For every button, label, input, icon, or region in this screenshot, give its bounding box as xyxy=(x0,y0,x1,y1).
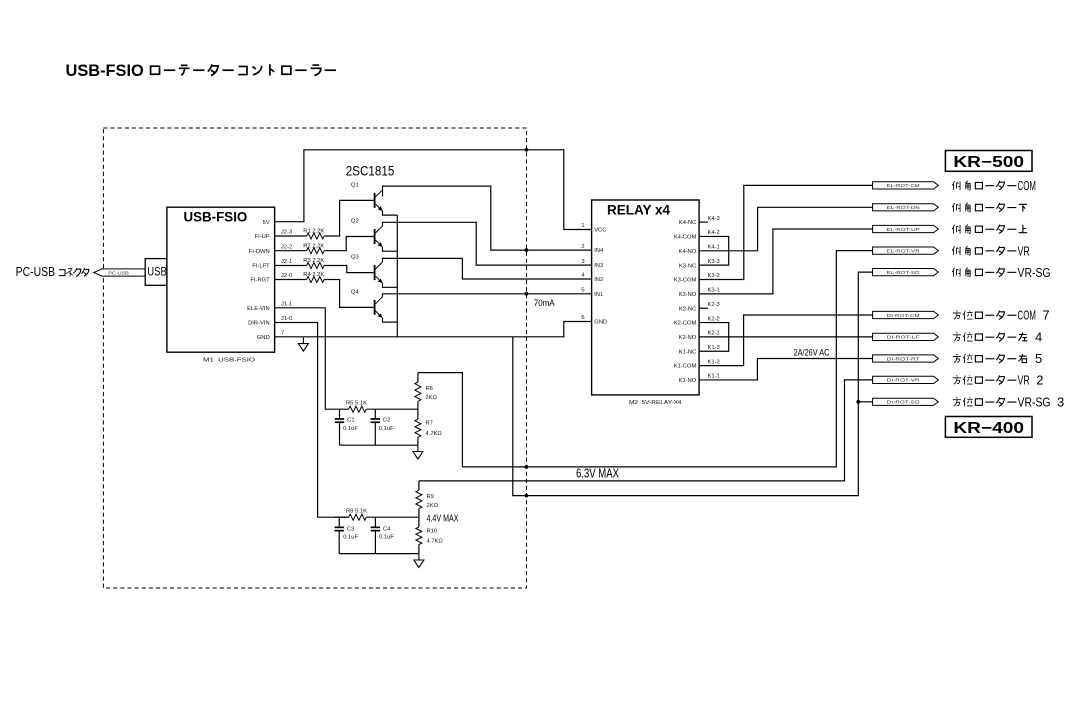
svg-text:K1-1: K1-1 xyxy=(708,374,720,380)
wire C1/C2/R7 bottom rail xyxy=(340,444,418,446)
label azimuth rotator left 4 (Japanese) xyxy=(953,330,1042,345)
label azimuth rotator VR-SG 3 (Japanese) xyxy=(953,395,1064,410)
resistor R8 5.1K xyxy=(335,509,368,521)
net flag EL-ROT-CM xyxy=(873,182,939,189)
svg-text:K2-COM: K2-COM xyxy=(674,321,697,327)
wire DIR-VIN from M1 down to R8 filter node xyxy=(275,323,349,518)
wire K1-COM to flag DI-ROT-CM xyxy=(699,315,873,366)
ground symbol ELE filter xyxy=(413,446,423,460)
svg-text:IN3: IN3 xyxy=(594,263,603,269)
wire M1 FI pin to resistor R4 xyxy=(275,279,307,281)
svg-text:DIR-VIN: DIR-VIN xyxy=(248,321,270,327)
svg-text:K1-COM: K1-COM xyxy=(674,364,697,370)
label azimuth rotator COM 7 (Japanese) xyxy=(953,308,1050,323)
svg-text:R10: R10 xyxy=(427,528,438,534)
wire Q4 collector to relay IN1 xyxy=(383,294,592,297)
junction dot signal-ground line at enclosure boundary xyxy=(525,494,529,498)
resistor R10 4.7Kohm xyxy=(416,517,444,553)
svg-text:0.1uF: 0.1uF xyxy=(379,426,394,432)
svg-text:VR: VR xyxy=(1018,373,1030,388)
resistor R4 2.2K xyxy=(303,272,324,282)
svg-text:Q2: Q2 xyxy=(351,219,359,225)
svg-text:FI-DWN: FI-DWN xyxy=(249,249,270,255)
svg-text:Q3: Q3 xyxy=(351,255,359,261)
svg-text:K4-2: K4-2 xyxy=(708,230,720,236)
USB port box on M1 xyxy=(145,259,167,286)
ground symbol near M1 GND pin xyxy=(298,338,308,352)
label elevation rotator COM (Japanese) xyxy=(952,178,1036,193)
svg-text:70mA: 70mA xyxy=(534,298,555,308)
svg-text:0.1uF: 0.1uF xyxy=(343,426,358,432)
svg-text:J1-1: J1-1 xyxy=(281,302,292,308)
net flag DI-ROT-SG xyxy=(873,398,939,405)
wire R5 to C2/R6/R7 node xyxy=(366,408,418,410)
svg-text:GND: GND xyxy=(257,335,270,341)
resistor R2 2.2K xyxy=(303,243,324,253)
transistor Q4 2SC1815 NPN xyxy=(351,290,383,319)
junction dot 5V net at enclosure boundary xyxy=(525,148,529,152)
svg-text:0.1uF: 0.1uF xyxy=(379,535,394,541)
wire Q1 collector to relay IN4 xyxy=(383,186,592,250)
wire R1 to Q1 base xyxy=(324,200,374,236)
svg-text:K1-NO: K1-NO xyxy=(679,378,697,384)
svg-text:DI-ROT-LF: DI-ROT-LF xyxy=(887,335,920,340)
svg-text:M1 USB-FSIO: M1 USB-FSIO xyxy=(203,357,256,363)
svg-text:DI-ROT-CM: DI-ROT-CM xyxy=(887,313,920,318)
svg-text:2A/26V AC: 2A/26V AC xyxy=(794,347,830,357)
svg-text:3: 3 xyxy=(581,259,584,265)
svg-text:K4-COM: K4-COM xyxy=(674,235,697,241)
svg-text:M2 5V-RELAY-X4: M2 5V-RELAY-X4 xyxy=(629,400,682,406)
resistor R5 5.1K xyxy=(346,401,367,413)
svg-text:4.7KΩ: 4.7KΩ xyxy=(426,431,443,437)
resistor R3 2.2K xyxy=(303,258,324,268)
wire R3 to Q3 base xyxy=(324,266,374,273)
wire C3/C4/R10 bottom rail xyxy=(339,553,419,555)
resistor R7 4.7Kohm xyxy=(415,409,443,445)
net flag DI-ROT-RT xyxy=(873,355,939,362)
svg-text:Q1: Q1 xyxy=(351,183,359,189)
svg-text:K3-3: K3-3 xyxy=(708,259,720,265)
svg-text:J1-0: J1-0 xyxy=(281,316,292,322)
svg-text:4: 4 xyxy=(1035,330,1042,345)
wire M1 FI pin to resistor R1 xyxy=(275,235,307,237)
net flag EL-ROT-UP xyxy=(873,225,939,232)
IC M1 pin name labels xyxy=(247,220,270,341)
svg-text:7: 7 xyxy=(281,331,284,337)
svg-text:FI-LFT: FI-LFT xyxy=(252,264,270,270)
svg-text:C1: C1 xyxy=(347,418,354,424)
wire Q3 emitter to common rail xyxy=(383,283,398,287)
svg-text:FI-RGT: FI-RGT xyxy=(250,278,270,284)
label elevation rotator VR (Japanese) xyxy=(952,243,1030,258)
transistor Q3 2SC1815 NPN xyxy=(351,255,383,284)
svg-text:J2-1: J2-1 xyxy=(281,259,292,265)
svg-text:R7: R7 xyxy=(426,421,433,427)
svg-text:FI-UP: FI-UP xyxy=(255,234,270,240)
IC M2 RELAY x4 body xyxy=(592,200,700,395)
wire M1 FI pin to resistor R3 xyxy=(275,265,307,267)
svg-text:5: 5 xyxy=(1035,351,1042,366)
svg-text:R9: R9 xyxy=(427,494,434,500)
capacitor C3 0.1uF xyxy=(335,517,359,553)
junction dot DI-ROT-SG tap xyxy=(856,400,860,404)
svg-text:VR: VR xyxy=(1018,243,1030,258)
wire Q2 emitter to common rail xyxy=(383,247,398,251)
svg-text:GND: GND xyxy=(594,320,607,326)
svg-text:C4: C4 xyxy=(383,526,391,532)
wire DI-ROT-SG stub xyxy=(858,401,872,403)
svg-text:R6: R6 xyxy=(426,386,433,392)
wire M1 FI pin to resistor R2 xyxy=(275,250,307,252)
svg-text:5V: 5V xyxy=(263,220,270,226)
wire Q1 emitter to common rail xyxy=(383,211,398,215)
svg-text:J2-0: J2-0 xyxy=(281,273,292,279)
svg-text:EL-ROT-SG: EL-ROT-SG xyxy=(887,270,921,275)
wire K2-COM to K1-NC bridge xyxy=(699,323,729,352)
label azimuth rotator VR 2 (Japanese) xyxy=(953,373,1044,388)
label box KR-400 controller xyxy=(945,417,1032,438)
label elevation rotator down (Japanese) xyxy=(952,203,1027,212)
label elevation rotator up (Japanese) xyxy=(952,224,1027,233)
svg-text:R4 2.2K: R4 2.2K xyxy=(303,272,324,278)
label elevation rotator VR-SG (Japanese) xyxy=(952,265,1050,280)
svg-text:1: 1 xyxy=(581,223,584,229)
wire R8 to C4/R9/R10 node xyxy=(366,516,419,518)
svg-text:DI-ROT-RT: DI-ROT-RT xyxy=(887,356,920,361)
junction dot 6.3V line at enclosure boundary xyxy=(525,465,529,469)
svg-text:K4-NO: K4-NO xyxy=(679,249,697,255)
label 2SC1815 transistor type xyxy=(346,164,395,179)
IC M2 left pin number labels 1-6 xyxy=(581,223,585,321)
reference designator M2 5V-RELAY-X4 xyxy=(629,400,682,406)
svg-text:PC-USB: PC-USB xyxy=(108,271,129,276)
svg-text:VR-SG: VR-SG xyxy=(1018,265,1051,280)
label azimuth rotator right 5 (Japanese) xyxy=(953,351,1042,366)
svg-text:COM: COM xyxy=(1018,178,1036,193)
svg-text:K1-NC: K1-NC xyxy=(679,349,696,355)
svg-text:K4-NC: K4-NC xyxy=(679,220,696,226)
svg-text:7: 7 xyxy=(1042,308,1049,323)
svg-text:COM: COM xyxy=(1018,308,1036,323)
svg-text:EL-ROT-DN: EL-ROT-DN xyxy=(887,205,920,210)
wire Q2 collector to relay IN3 xyxy=(383,222,592,265)
svg-text:6.3V MAX: 6.3V MAX xyxy=(576,465,619,480)
net flag DI-ROT-LF xyxy=(873,333,939,340)
pin stubs K4-NC and K2-NC (no connection) xyxy=(699,222,708,308)
net flag EL-ROT-DN xyxy=(873,204,939,211)
svg-text:C2: C2 xyxy=(383,418,390,424)
svg-text:IN2: IN2 xyxy=(594,277,603,283)
resistor R1 2.2K xyxy=(303,229,324,239)
svg-text:2KΩ: 2KΩ xyxy=(427,503,439,509)
connector flag PC-USB (points left) xyxy=(94,269,145,276)
svg-text:USB-FSIO: USB-FSIO xyxy=(66,61,144,80)
resistor R9 2Kohm xyxy=(416,481,439,517)
label 6.3V MAX xyxy=(576,465,619,480)
svg-text:C3: C3 xyxy=(347,526,354,532)
label PC-USB connector (Japanese) xyxy=(16,264,89,279)
IC M2 left pin name labels xyxy=(594,228,607,326)
IC M1 pin number labels J2-3..J1-0, 7 xyxy=(281,230,292,337)
junction dot IN1 net at enclosure boundary xyxy=(525,292,529,296)
svg-text:K2-NO: K2-NO xyxy=(679,335,697,341)
wire R6 top to 6.3V line xyxy=(418,373,463,467)
svg-text:4.7KΩ: 4.7KΩ xyxy=(427,538,444,544)
svg-text:K4-3: K4-3 xyxy=(708,216,720,222)
svg-text:VR-SG: VR-SG xyxy=(1018,395,1051,410)
svg-text:K4-1: K4-1 xyxy=(708,245,720,251)
wire K3-COM to flag EL-ROT-CM xyxy=(699,185,873,279)
svg-text:J2-2: J2-2 xyxy=(281,244,292,250)
svg-text:K1-2: K1-2 xyxy=(708,359,720,365)
svg-text:IN4: IN4 xyxy=(594,248,604,254)
wire K1-NO to flag DI-ROT-RT xyxy=(699,359,873,380)
wire R2 to Q2 base xyxy=(324,237,374,251)
svg-text:K1-3: K1-3 xyxy=(708,345,720,351)
svg-text:IN1: IN1 xyxy=(594,292,603,298)
wire R4 to Q4 base xyxy=(324,280,374,308)
svg-text:6: 6 xyxy=(581,315,584,321)
svg-text:KR−500: KR−500 xyxy=(953,154,1024,171)
net flag EL-ROT-VR xyxy=(873,247,939,254)
svg-text:Q4: Q4 xyxy=(351,290,360,296)
net flag DI-ROT-VR xyxy=(873,376,939,383)
svg-text:DI-ROT-VR: DI-ROT-VR xyxy=(887,378,921,383)
svg-text:0.1uF: 0.1uF xyxy=(343,535,358,541)
wire common emitter rail down to GND line xyxy=(396,215,398,337)
svg-text:USB: USB xyxy=(147,265,167,279)
svg-text:R2 2.2K: R2 2.2K xyxy=(303,243,324,249)
label 70mA xyxy=(534,298,555,308)
label 4.4V MAX xyxy=(427,513,459,525)
label box KR-500 controller xyxy=(945,151,1032,172)
svg-text:R3 2.2K: R3 2.2K xyxy=(303,258,324,264)
svg-text:ELE-VIN: ELE-VIN xyxy=(247,306,270,312)
label 2A/26V AC xyxy=(794,347,830,357)
svg-text:K3-1: K3-1 xyxy=(708,288,720,294)
wire K3-NO to flag EL-ROT-UP xyxy=(699,229,873,294)
wire K2-NO to flag DI-ROT-LF xyxy=(699,336,873,338)
wire K4-COM to K3-NC bridge xyxy=(699,236,729,265)
svg-text:5: 5 xyxy=(581,288,584,294)
IC M2 right pin name labels K4-NC..K1-NO xyxy=(674,220,697,384)
wire K4-NO to flag EL-ROT-DN xyxy=(699,207,873,251)
wire 6.3V MAX line to EL-ROT-VR xyxy=(462,251,872,467)
svg-text:K3-2: K3-2 xyxy=(708,273,720,279)
svg-text:R5 5.1K: R5 5.1K xyxy=(346,401,367,407)
svg-text:2: 2 xyxy=(581,244,584,250)
wire Q4 emitter to common rail xyxy=(383,318,398,322)
schematic title USB-FSIO rotator controller xyxy=(66,61,336,80)
wire 5V net: M1 pin 5V up and over to relay VCC xyxy=(275,150,592,230)
capacitor C4 0.1uF xyxy=(371,517,395,553)
svg-text:R8 5.1K: R8 5.1K xyxy=(346,509,367,515)
svg-text:K2-NC: K2-NC xyxy=(679,306,696,312)
svg-text:3: 3 xyxy=(1057,395,1064,410)
transistor Q1 2SC1815 NPN xyxy=(351,183,383,212)
svg-text:EL-ROT-VR: EL-ROT-VR xyxy=(887,248,921,253)
reference designator M1 USB-FSIO xyxy=(203,357,256,363)
svg-text:EL-ROT-CM: EL-ROT-CM xyxy=(887,183,920,188)
svg-text:J2-3: J2-3 xyxy=(281,230,292,236)
svg-text:KR−400: KR−400 xyxy=(953,420,1024,437)
svg-text:K3-NC: K3-NC xyxy=(679,263,696,269)
svg-text:2SC1815: 2SC1815 xyxy=(346,164,395,179)
capacitor C2 0.1uF xyxy=(371,409,395,445)
svg-text:PC-USB: PC-USB xyxy=(16,264,56,279)
ground symbol DIR filter xyxy=(414,554,424,568)
wire ELE-VIN from M1 down to R5 filter node xyxy=(275,308,349,409)
svg-text:4.4V MAX: 4.4V MAX xyxy=(427,513,459,525)
wire Q3 collector to relay IN2 xyxy=(383,258,592,279)
transistor Q2 2SC1815 NPN xyxy=(351,219,383,248)
svg-text:EL-ROT-UP: EL-ROT-UP xyxy=(887,227,920,232)
svg-text:VCC: VCC xyxy=(594,228,606,234)
net flag DI-ROT-CM xyxy=(873,311,939,318)
svg-text:RELAY x4: RELAY x4 xyxy=(607,203,670,218)
svg-text:USB-FSIO: USB-FSIO xyxy=(184,209,248,224)
svg-text:K2-3: K2-3 xyxy=(708,302,720,308)
capacitor C1 0.1uF xyxy=(335,409,359,445)
resistor R6 2Kohm xyxy=(415,373,438,410)
IC M1 USB-FSIO body xyxy=(167,207,275,352)
svg-text:K2-2: K2-2 xyxy=(708,316,720,322)
svg-text:2KΩ: 2KΩ xyxy=(426,395,438,401)
svg-text:K2-1: K2-1 xyxy=(708,331,720,337)
net flag EL-ROT-SG xyxy=(873,269,939,276)
controller unit dashed enclosure boundary xyxy=(103,128,526,588)
svg-text:DI-ROT-SG: DI-ROT-SG xyxy=(887,400,921,405)
svg-text:R1 2.2K: R1 2.2K xyxy=(303,229,324,235)
wire GND net: M1 GND to relay GND xyxy=(275,322,592,337)
junction dot IN4 net at enclosure boundary xyxy=(525,248,529,252)
svg-text:K3-COM: K3-COM xyxy=(674,278,697,284)
IC M2 right pin terminal labels K4-3..K1-1 xyxy=(708,216,720,380)
wire signal-ground line from GND net to EL-ROT-SG and DI-ROT-SG xyxy=(513,272,873,496)
svg-text:2: 2 xyxy=(1036,373,1043,388)
wire 4.4V line R9 top to DI-ROT-VR xyxy=(419,380,873,481)
svg-text:K3-NO: K3-NO xyxy=(679,292,697,298)
